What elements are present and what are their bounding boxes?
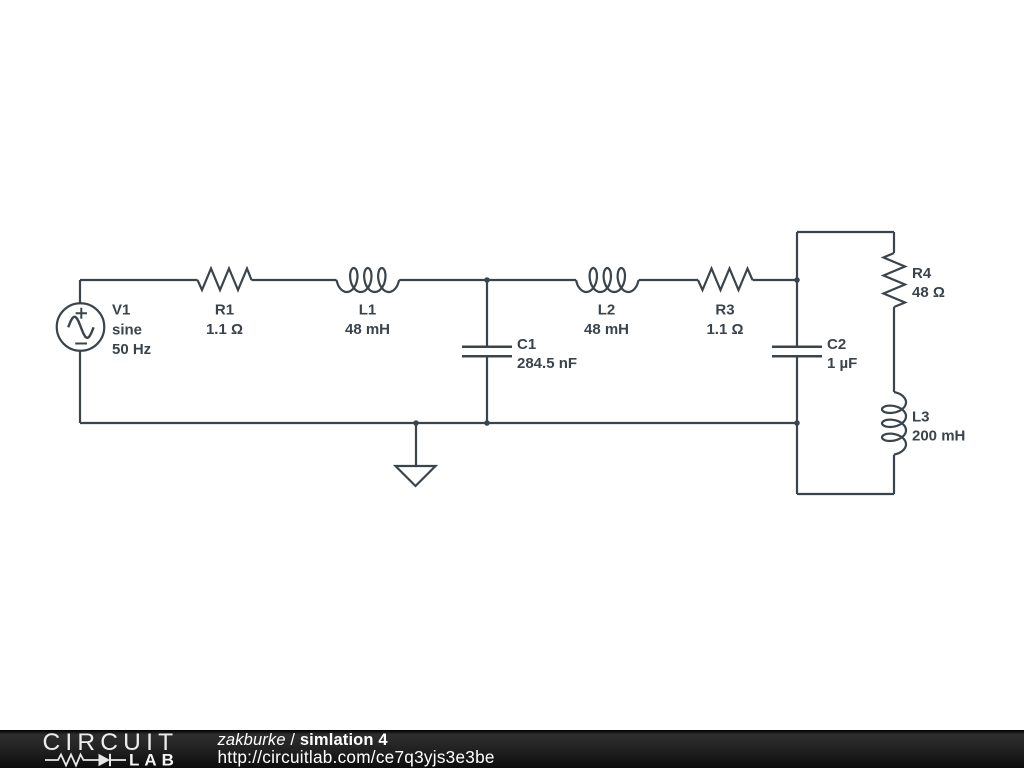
- inductor L2: [576, 268, 639, 292]
- svg-text:200 mH: 200 mH: [912, 428, 965, 445]
- inductor L3: [882, 392, 906, 455]
- svg-text:L3: L3: [912, 409, 930, 426]
- wire node B up: [796, 232, 798, 280]
- svg-text:C2: C2: [827, 336, 846, 353]
- svg-text:48 Ω: 48 Ω: [912, 284, 945, 301]
- svg-text:1 µF: 1 µF: [827, 355, 857, 372]
- svg-text:R4: R4: [912, 265, 932, 282]
- wire L3 down: [893, 455, 895, 494]
- svg-text:48 mH: 48 mH: [584, 321, 629, 338]
- svg-text:48 mH: 48 mH: [345, 321, 390, 338]
- capacitor C1 top lead: [486, 280, 488, 347]
- wire right loop up to node D: [796, 423, 798, 494]
- svg-text:LAB: LAB: [129, 751, 179, 768]
- node C junction dot: [484, 420, 490, 426]
- svg-text:1.1 Ω: 1.1 Ω: [206, 321, 243, 338]
- wire top left: V1 to R1: [80, 279, 198, 281]
- svg-text:V1: V1: [112, 302, 130, 319]
- capacitor C1 plates: [462, 347, 512, 357]
- resistor R4: [884, 253, 906, 307]
- CircuitLab logo diode triangle: [99, 754, 111, 766]
- svg-text:sine: sine: [112, 322, 142, 339]
- ground stem: [415, 423, 417, 466]
- wire top of right loop: [797, 231, 894, 233]
- svg-text:L1: L1: [359, 302, 377, 319]
- CircuitLab logo resistor-diode line: [45, 754, 126, 766]
- capacitor C2 bottom lead: [796, 356, 798, 423]
- capacitor C2 plates: [772, 347, 822, 357]
- resistor R3: [698, 269, 753, 291]
- wire R1 to L1: [252, 279, 337, 281]
- resistor R1: [198, 269, 252, 291]
- node D junction dot: [794, 420, 800, 426]
- wire bottom of right loop: [797, 493, 894, 495]
- svg-text:50 Hz: 50 Hz: [112, 341, 151, 358]
- svg-text:http://circuitlab.com/ce7q3yjs: http://circuitlab.com/ce7q3yjs3e3be: [218, 747, 495, 767]
- wire L1 to node A: [399, 279, 487, 281]
- node B junction dot: [794, 277, 800, 283]
- wire down to R4: [893, 232, 895, 253]
- wire V1 bottom stub: [79, 351, 81, 423]
- svg-text:R3: R3: [715, 302, 734, 319]
- wire R4 to L3: [893, 307, 895, 392]
- node A junction dot: [484, 277, 490, 283]
- wire V1 top stub: [79, 280, 81, 303]
- svg-text:284.5 nF: 284.5 nF: [517, 355, 577, 372]
- voltage source V1: [57, 303, 105, 351]
- capacitor C2 top lead: [796, 280, 798, 347]
- ground node junction dot: [413, 420, 419, 426]
- wire bottom rail: [80, 422, 797, 424]
- svg-text:R1: R1: [215, 302, 234, 319]
- svg-text:C1: C1: [517, 336, 536, 353]
- ground symbol: [396, 466, 436, 486]
- capacitor C1 bottom lead: [486, 356, 488, 423]
- wire node A to L2: [487, 279, 576, 281]
- wire L2 to R3: [639, 279, 698, 281]
- inductor L1: [337, 268, 400, 292]
- svg-text:L2: L2: [598, 302, 616, 319]
- svg-text:1.1 Ω: 1.1 Ω: [706, 321, 743, 338]
- wire R3 to node B: [753, 279, 798, 281]
